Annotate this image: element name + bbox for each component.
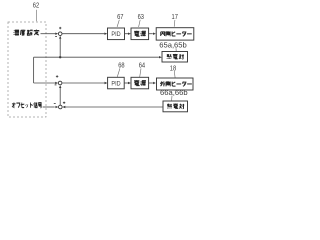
leader 62 [36,10,38,21]
leader 66a,66b [171,96,173,101]
wire: junction up into S1 [59,39,61,58]
wire: into summing junction S2 [34,82,56,84]
wire: S3 up into S2 [59,88,61,105]
leader 18 [173,71,176,78]
controller dashed box 62 [8,22,46,117]
power supply 64 box (電源) [131,77,149,89]
thermocouple box 2 (熱電対) [163,101,188,112]
wire: thermocouple 2 feedback into S3 right side [65,106,163,108]
leader 17 [173,20,176,27]
wire: feedback line from left into thermocouple 1 [34,56,159,58]
wire: offset signal to summing junction S3 [43,106,55,108]
thermocouple box 1 (熱電対) [162,52,188,63]
wire: power 63 to inner heater 17 [149,33,153,35]
minus sign S1 left [55,35,57,37]
leader 65a,65b [175,48,177,51]
svg-text:17: 17 [172,12,178,21]
leader 63 [139,20,141,27]
leader 68 [117,68,120,77]
wire: PID 67 to power 63 [125,33,128,35]
inner heater 17 box (内側ヒーター) [156,28,194,40]
minus sign S2 left [55,84,57,86]
leader 67 [117,20,119,27]
summing junction S1 [58,32,62,36]
power supply 63 box (電源) [131,28,149,40]
plus sign S1 top [59,27,61,29]
leader 64 [140,68,141,77]
wire: power 64 to outer heater 18 [149,82,153,84]
svg-text:66a,66b: 66a,66b [160,88,188,97]
outer heater 18 box (外側ヒーター) [157,78,194,90]
svg-text:64: 64 [139,60,145,69]
minus sign S3 left [54,102,56,104]
PID controller 67 box [108,28,125,40]
summing junction S2 [58,81,62,85]
svg-text:65a,65b: 65a,65b [159,40,187,49]
svg-text:18: 18 [170,64,176,73]
plus sign S3 right [63,102,65,104]
svg-text:PID: PID [111,81,121,87]
text 温度設定 (temperature setting) [14,30,39,36]
svg-text:62: 62 [33,0,39,9]
wire: setpoint to summing junction S1 [41,33,56,35]
wire: feedback drop at left [33,57,35,83]
summing junction S3 [59,105,63,109]
wire: S2 to PID 68 [62,82,104,84]
plus sign S2 top [56,75,58,77]
junction node on feedback line [59,56,61,58]
PID controller 68 box [108,77,125,89]
svg-text:68: 68 [118,60,124,69]
text オフセット信号 (offset signal) [12,102,42,107]
svg-text:PID: PID [111,32,121,38]
svg-text:67: 67 [117,12,123,21]
svg-text:63: 63 [138,12,144,21]
wire: S1 to PID 67 [62,33,104,35]
wire: PID 68 to power 64 [124,82,128,84]
